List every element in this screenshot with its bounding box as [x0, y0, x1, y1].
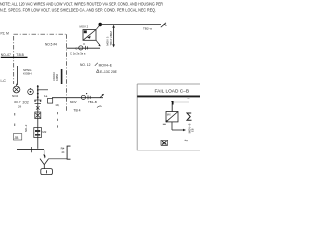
- svg-text:JB: JB: [14, 136, 19, 140]
- svg-text:TB17 2B0Z: TB17 2B0Z: [109, 31, 113, 46]
- svg-text:N.E. SPECS. FOR LOW VOLT. USE: N.E. SPECS. FOR LOW VOLT. USE SHIELDED C…: [0, 7, 156, 12]
- svg-text:4¢: 4¢: [61, 150, 65, 154]
- svg-text:NO–3: NO–3: [24, 124, 28, 132]
- svg-text:MOV: MOV: [70, 100, 77, 104]
- svg-text:2¢: 2¢: [18, 105, 22, 109]
- svg-text:3O.7: 3O.7: [14, 100, 21, 104]
- svg-text:1a: 1a: [44, 94, 48, 98]
- svg-text:MX: MX: [167, 113, 171, 117]
- svg-text:MOV 2: MOV 2: [80, 24, 89, 28]
- svg-text:19,: 19,: [55, 103, 59, 107]
- svg-text:M2: M2: [42, 130, 46, 134]
- svg-text:T.B.B: T.B.B: [16, 53, 24, 57]
- svg-text:NO. 12: NO. 12: [80, 63, 91, 67]
- svg-text:P2, M: P2, M: [1, 32, 10, 36]
- svg-text:E–13C 20E: E–13C 20E: [100, 70, 118, 74]
- svg-text:K0B0: K0B0: [55, 74, 59, 81]
- svg-text:NO–07: NO–07: [1, 53, 11, 57]
- svg-text:EB: EB: [190, 128, 194, 132]
- svg-text:C 1a 2a 3a a: C 1a 2a 3a a: [70, 52, 86, 56]
- svg-text:NOTE: ALL 120 VAC WIRES AND LO: NOTE: ALL 120 VAC WIRES AND LOW VOLT. WI…: [0, 2, 163, 7]
- svg-text:TB1–B: TB1–B: [88, 100, 97, 104]
- svg-text:FAIL LOAD C–B: FAIL LOAD C–B: [155, 89, 190, 94]
- svg-text:I–C: I–C: [1, 79, 7, 83]
- svg-text:MOV4–E: MOV4–E: [99, 63, 113, 67]
- svg-text:KGBH: KGBH: [23, 71, 32, 75]
- svg-text:TB2–a: TB2–a: [143, 27, 152, 31]
- svg-text:2O2: 2O2: [23, 100, 29, 104]
- svg-text:NO.5 #4: NO.5 #4: [45, 43, 57, 47]
- svg-text:TB 4: TB 4: [73, 108, 80, 112]
- svg-text:NO2: NO2: [12, 94, 19, 98]
